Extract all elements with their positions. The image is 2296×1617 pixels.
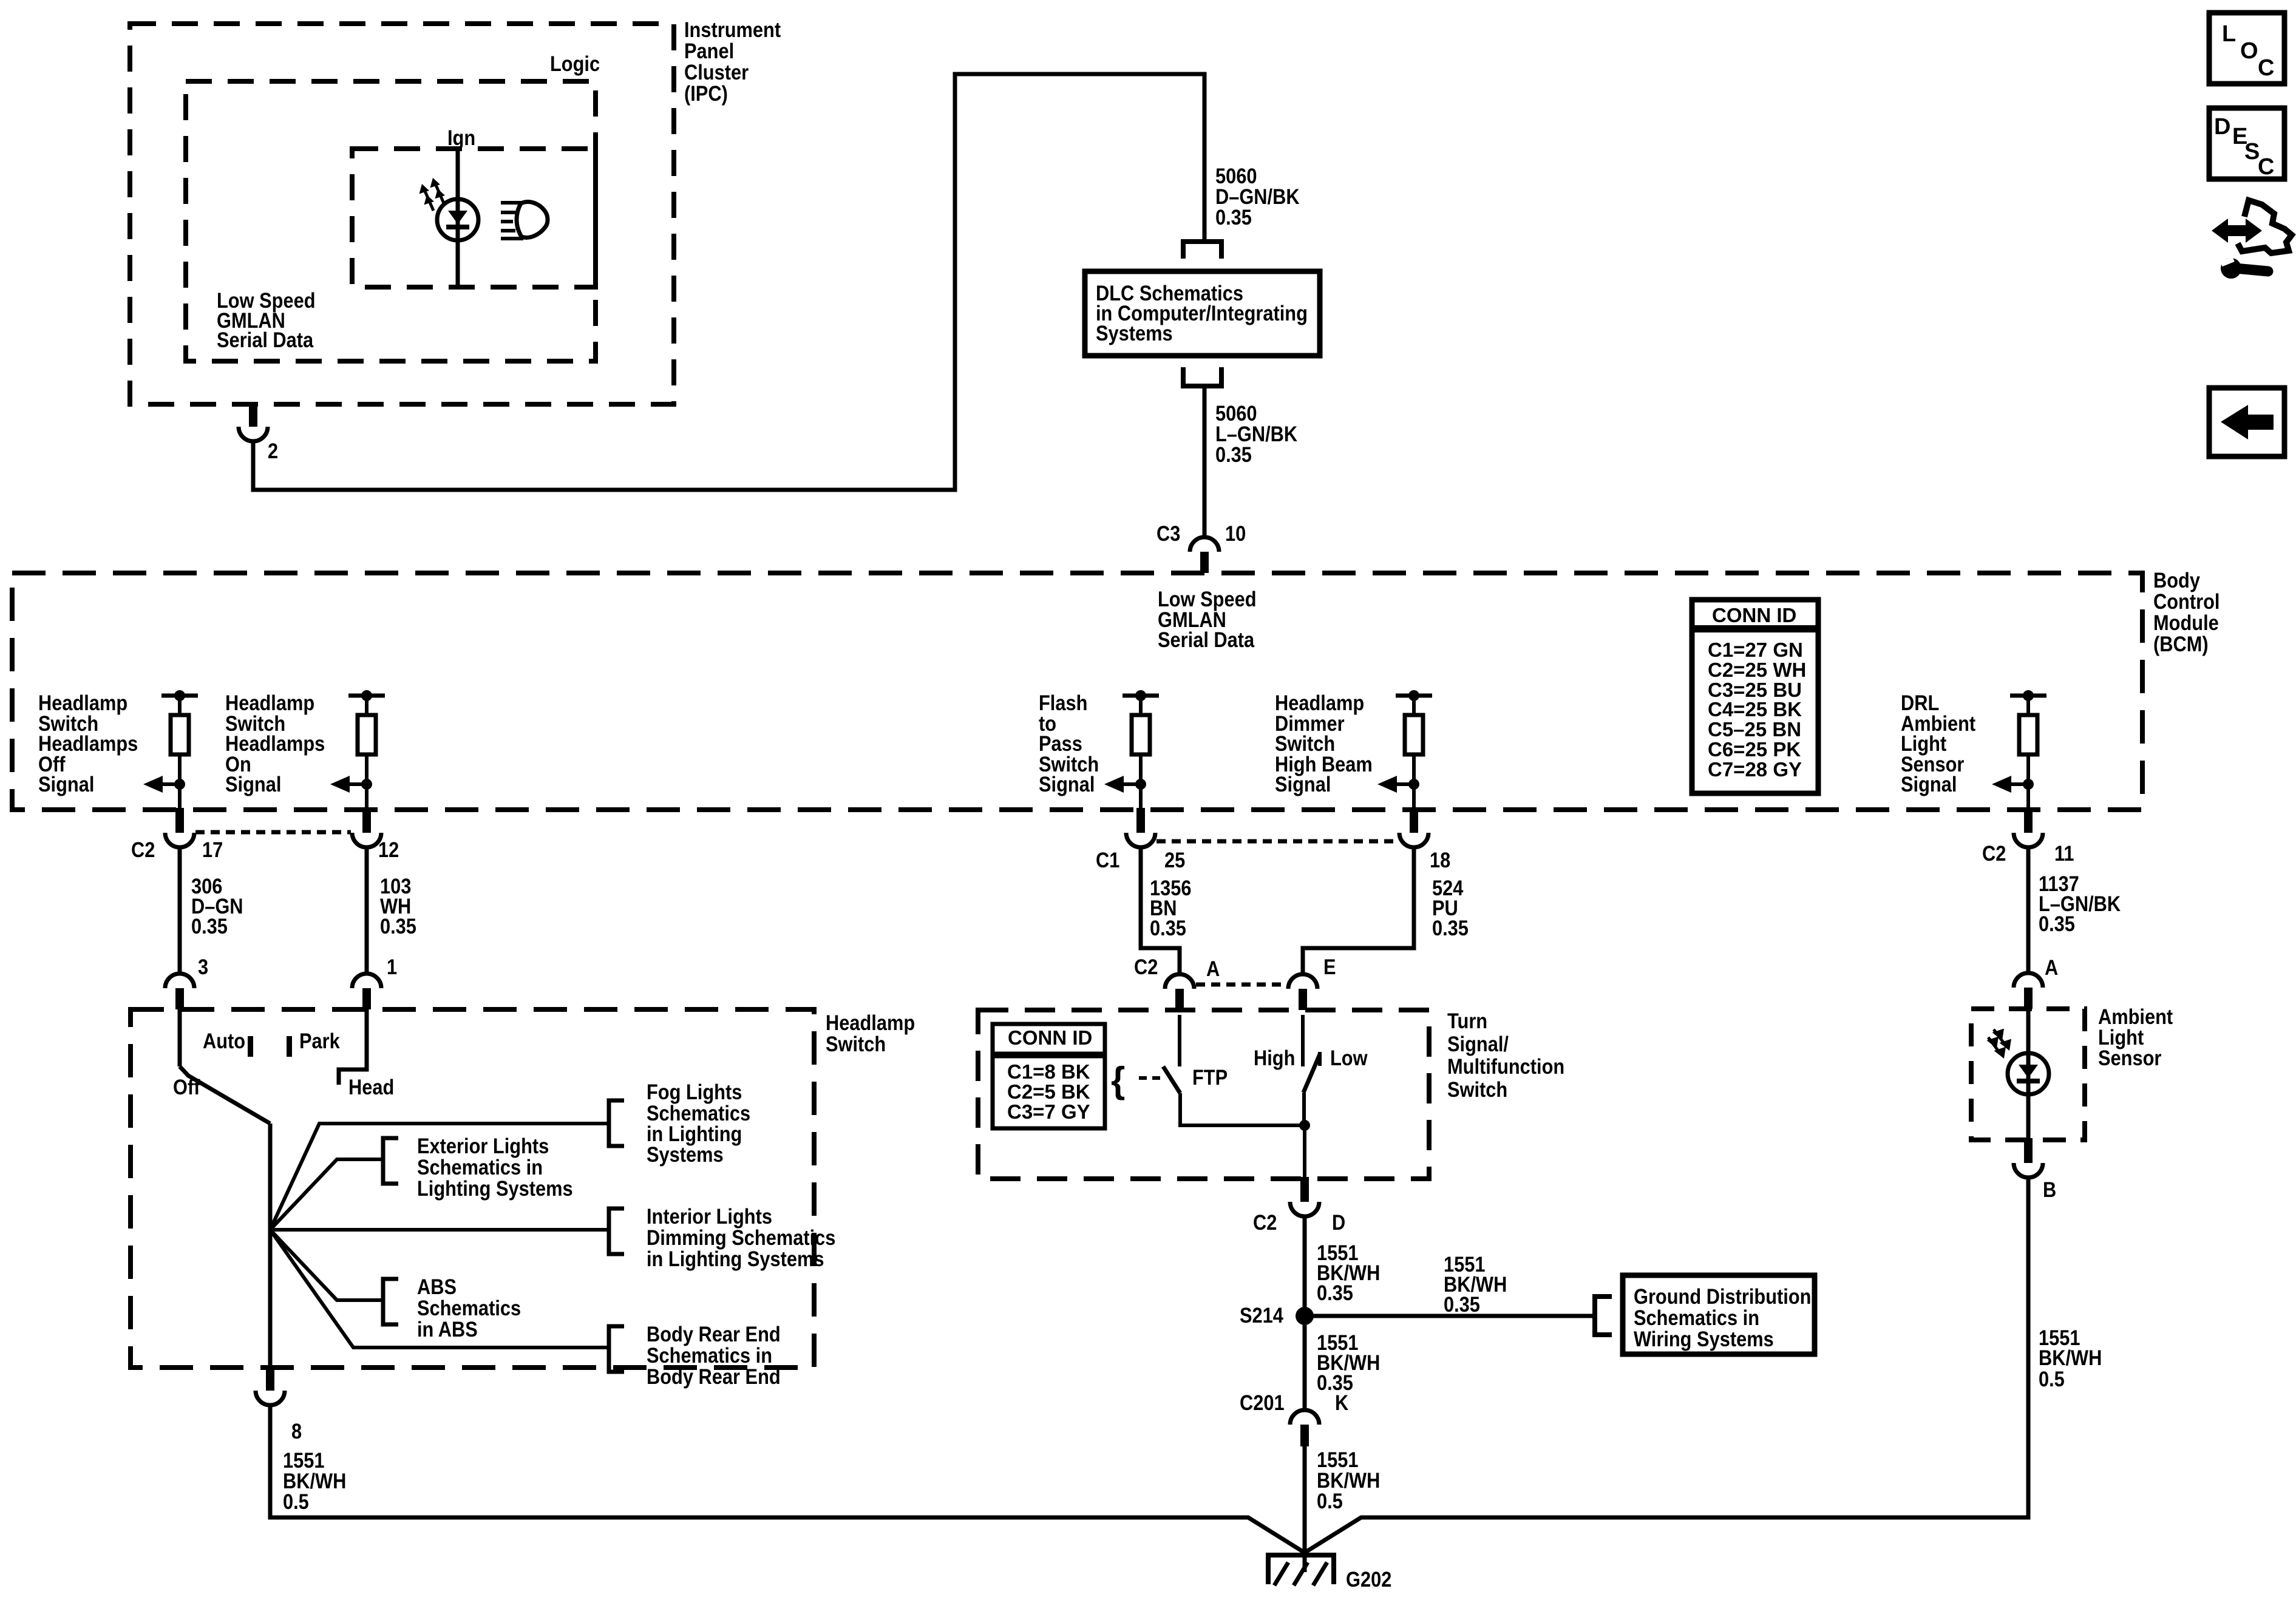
svg-text:25: 25 [1164,848,1185,872]
link line A-E connectors [1196,983,1288,987]
fan wire to interior lights [270,1228,609,1232]
resistor: DRL ambient light sensor signal [1992,690,2046,810]
fan wire to body rear end [270,1230,609,1347]
svg-text:(IPC): (IPC) [684,81,728,105]
label headlamp switch headlamps off signal [38,691,138,796]
Park contact tick [287,1036,292,1057]
svg-text:Panel: Panel [684,39,734,63]
svg-text:8: 8 [291,1419,302,1443]
svg-text:E: E [1323,955,1336,978]
wire label 1551 BK/WH 0.35 (below S214) [1317,1331,1380,1394]
svg-text:A: A [2045,955,2058,979]
wire 306 D-GN [178,846,182,974]
svg-text:Schematics in: Schematics in [417,1155,543,1179]
wire D to S214 [1303,1216,1307,1316]
svg-text:C2: C2 [1134,955,1158,978]
svg-text:C2: C2 [1982,841,2006,865]
off-page bracket above DLC box [1183,242,1221,259]
headlamp switch box [131,1009,814,1368]
svg-text:C: C [2258,55,2274,81]
wire label 1551 BK/WH 0.5 [1317,1448,1380,1513]
svg-text:Body Rear End: Body Rear End [647,1322,781,1346]
connector pin A into sensor [2014,973,2043,1009]
svg-text:in Lighting Systems: in Lighting Systems [647,1247,824,1270]
wire B to ground bus [1305,1176,2028,1553]
connector pin B [2014,1138,2043,1178]
bracket exterior lights [383,1138,398,1184]
wire pin3 into switch [178,1009,182,1066]
connector C2 pin D [1290,1177,1319,1216]
svg-text:0.35: 0.35 [1150,916,1186,940]
bracket interior lights [609,1209,624,1254]
Head contact stub [339,1009,367,1085]
svg-text:C201: C201 [1240,1391,1285,1414]
connector IPC pin 2 [239,402,268,441]
svg-text:in ABS: in ABS [417,1317,478,1341]
junction node [1299,1120,1310,1131]
svg-text:0.35: 0.35 [1444,1292,1480,1316]
resistor: headlamps off signal [143,690,198,810]
Ground Distribution box [1623,1275,1815,1354]
off-page bracket below DLC box [1183,367,1221,386]
IPC box [130,24,674,404]
connector pin 18 [1399,808,1428,847]
fan wire to ABS [270,1230,381,1300]
svg-text:Schematics in: Schematics in [1634,1306,1759,1329]
FTP switch blade [1163,1066,1180,1093]
svg-text:Wiring Systems: Wiring Systems [1634,1327,1774,1351]
wire 103 WH [365,846,369,974]
svg-text:Logic: Logic [550,52,600,75]
svg-text:L: L [2222,21,2236,47]
connector pin E into switch [1288,974,1317,1010]
dimmer switch blade [1303,1054,1320,1093]
headlamp lamp outline [517,202,548,238]
svg-text:FTP: FTP [1192,1065,1228,1089]
splice S214 [1296,1307,1314,1325]
wire 524 PU [1303,846,1414,974]
svg-text:(BCM): (BCM) [2153,632,2209,656]
svg-text:Exterior Lights: Exterior Lights [417,1134,549,1158]
bracket body rear end [609,1326,624,1372]
svg-text:C5–25 BN: C5–25 BN [1708,718,1801,741]
svg-text:Head: Head [348,1075,394,1099]
svg-text:ABS: ABS [417,1275,457,1298]
svg-text:Signal: Signal [38,772,94,796]
DESC icon box [2209,108,2284,180]
label headlamp switch headlamps on signal [225,691,325,796]
svg-text:Sensor: Sensor [2098,1046,2162,1070]
svg-text:Ign: Ign [447,126,475,149]
svg-text:C4=25 BK: C4=25 BK [1708,698,1802,720]
svg-text:Dimming Schematics: Dimming Schematics [647,1225,835,1249]
svg-text:Signal/: Signal/ [1447,1032,1509,1056]
wire A into FTP switch [1178,1015,1181,1066]
svg-text:Signal: Signal [225,772,281,796]
DLC Schematics box [1085,271,1320,356]
resistor: high beam signal [1377,690,1432,810]
svg-text:0.35: 0.35 [1432,916,1469,940]
svg-text:Switch: Switch [1447,1077,1507,1101]
resistor: flash to pass [1104,690,1159,810]
ambient light sensor label [2098,1005,2173,1070]
wire label 1551 BK/WH 0.35 (branch) [1444,1252,1507,1316]
svg-text:S214: S214 [1240,1303,1284,1327]
svg-text:Control: Control [2153,589,2220,613]
connector C201 pin K [1290,1410,1319,1446]
headlamp switch label [826,1011,915,1056]
wire DLC to BCM C3 [1203,386,1207,538]
svg-text:C3: C3 [1156,521,1180,545]
svg-text:Switch: Switch [826,1032,886,1056]
wire 1137 L-GN/BK [2026,846,2031,974]
wire 1551 BK/WH 0.5 (left) [270,1403,1305,1553]
label headlamp dimmer switch high beam signal [1275,691,1373,796]
svg-text:Multifunction: Multifunction [1447,1054,1564,1078]
svg-text:18: 18 [1430,848,1450,872]
bracket ABS [383,1279,398,1324]
svg-text:{: { [1111,1060,1125,1100]
svg-text:0.35: 0.35 [191,914,228,938]
wire label 5060 D-GN/BK 0.35 [1215,164,1300,229]
svg-text:Fog Lights: Fog Lights [647,1080,742,1103]
wire from FTP blade to junction [1180,1093,1305,1125]
svg-text:3: 3 [198,955,208,978]
connector C2 pin 17 [165,808,194,847]
svg-text:D: D [1332,1210,1345,1234]
svg-text:0.35: 0.35 [2039,912,2075,935]
svg-text:C1: C1 [1096,848,1119,872]
connector C2 pin A into switch [1165,974,1194,1010]
Low Speed GMLAN Serial Data label (IPC) [217,288,316,351]
wire S214 to ground distribution [1305,1314,1595,1318]
sensor wire through photodiode [2026,1009,2031,1140]
svg-text:10: 10 [1225,521,1246,545]
ambient light sensor box [1971,1009,2085,1140]
link line C2 connectors [195,830,351,835]
svg-text:Instrument: Instrument [684,18,781,41]
svg-text:0.5: 0.5 [2039,1367,2065,1391]
Auto contact tick [248,1036,253,1057]
connector C2 pin 12 [352,808,381,847]
svg-text:CONN ID: CONN ID [1712,604,1796,626]
svg-text:Lighting Systems: Lighting Systems [417,1176,573,1200]
svg-text:Systems: Systems [1096,321,1173,345]
FTP mechanical link dashes [1139,1076,1163,1080]
label flash to pass switch signal [1039,691,1099,796]
svg-text:C1=8 BK: C1=8 BK [1007,1060,1090,1083]
BCM label [2153,568,2220,656]
svg-text:Schematics: Schematics [417,1296,521,1320]
svg-text:C2: C2 [1253,1210,1277,1234]
svg-text:BK/WH: BK/WH [2039,1346,2102,1369]
Low contact stub [1318,1052,1322,1066]
headlamp beam icon lines [501,203,523,239]
svg-text:Serial Data: Serial Data [1158,628,1255,651]
wire junction to box edge [1303,1125,1306,1179]
svg-text:Signal: Signal [1275,772,1331,796]
svg-text:High: High [1254,1046,1295,1070]
svg-text:G202: G202 [1346,1567,1391,1591]
resistor: headlamps on signal [330,690,385,810]
fan wire to exterior lights [270,1159,381,1230]
svg-text:Signal: Signal [1039,772,1095,796]
wire label 1551 BK/WH 0.5 (right) [2039,1326,2102,1391]
wire C201 to ground [1303,1446,1307,1572]
LED light arrows (emitting) [419,178,445,211]
svg-text:C2=5 BK: C2=5 BK [1007,1080,1090,1103]
svg-text:Headlamp: Headlamp [826,1011,915,1034]
light arrows (absorbing) [1987,1029,2012,1059]
svg-text:0.35: 0.35 [1215,205,1252,229]
svg-text:Body: Body [2153,568,2201,592]
svg-text:12: 12 [378,838,399,861]
IPC label [684,18,781,105]
svg-text:Serial Data: Serial Data [217,328,314,351]
svg-text:1: 1 [387,955,397,978]
svg-text:Auto: Auto [203,1029,245,1053]
Logic box [186,81,596,361]
svg-text:0.5: 0.5 [283,1490,309,1513]
svg-text:0.5: 0.5 [1317,1489,1343,1513]
fan wire to fog lights [270,1124,609,1230]
svg-text:Interior Lights: Interior Lights [647,1204,772,1228]
indicator LED in IPC [437,199,478,240]
wire 1356 BN [1141,846,1180,974]
LOC icon box [2209,13,2284,84]
svg-text:O: O [2240,38,2258,64]
wire E into dimmer switch (High contact) [1301,1015,1305,1066]
svg-text:Schematics in: Schematics in [647,1343,772,1367]
svg-text:K: K [1335,1391,1348,1414]
svg-text:C2=25 WH: C2=25 WH [1708,659,1806,681]
svg-text:0.35: 0.35 [1215,442,1252,466]
wire from IPC pin2 to DLC (serial data) [253,74,1204,490]
connector into headlamp switch pin 1 [352,974,381,1009]
BCM box [12,573,2142,810]
off-page bracket ground distribution [1595,1297,1612,1335]
svg-text:11: 11 [2054,841,2074,865]
wire Ign feed through LED [456,150,460,286]
svg-text:Turn: Turn [1447,1009,1487,1032]
svg-text:Park: Park [299,1029,340,1053]
wire label 1551 BK/WH 0.35 (above S214) [1317,1241,1380,1304]
CONN ID table (turn signal) [993,1024,1105,1128]
svg-text:Body Rear End: Body Rear End [647,1364,781,1388]
connector C2 pin 11 [2014,808,2043,847]
turn signal box [978,1010,1429,1179]
svg-text:B: B [2043,1178,2056,1201]
svg-text:0.35: 0.35 [380,914,416,938]
svg-text:C: C [2258,154,2274,180]
Ign box [352,149,596,287]
svg-text:A: A [1206,957,1220,980]
connector C1 pin 25 [1126,808,1155,847]
connector pin 8 [256,1366,285,1405]
svg-text:Ground Distribution: Ground Distribution [1634,1284,1811,1308]
wire S214 to C201 [1303,1316,1307,1410]
bracket fog lights [609,1100,624,1146]
svg-text:Cluster: Cluster [684,60,749,84]
wire label 5060 L-GN/BK 0.35 [1215,401,1297,466]
svg-text:17: 17 [202,838,223,861]
wire blade to junction [1302,1093,1306,1125]
wiper common wire [268,1124,273,1368]
svg-text:0.35: 0.35 [1317,1281,1353,1304]
svg-text:CONN ID: CONN ID [1008,1026,1092,1049]
CONN ID table (BCM) [1692,600,1818,793]
link line C1 connectors [1156,839,1398,844]
turn signal label [1447,1009,1564,1101]
back arrow icon box [2209,388,2284,456]
svg-text:C3=7 GY: C3=7 GY [1007,1100,1090,1123]
connector C3 pin 10 into BCM [1190,537,1219,573]
service info icon (car + wrench) [2212,200,2292,279]
switch wiper blade (Off position) [180,1066,270,1124]
svg-text:D: D [2214,114,2230,140]
ground symbol G202 [1268,1553,1334,1585]
label DRL ambient light sensor signal [1901,691,1975,796]
svg-text:2: 2 [268,439,278,463]
connector into headlamp switch pin 3 [165,974,194,1009]
svg-text:C2: C2 [131,838,155,861]
svg-text:C1=27 GN: C1=27 GN [1708,639,1803,661]
svg-text:Signal: Signal [1901,772,1957,796]
Low Speed GMLAN Serial Data label (BCM) [1158,587,1257,651]
svg-text:Module: Module [2153,611,2219,634]
svg-text:C6=25 PK: C6=25 PK [1708,738,1801,761]
svg-text:Low: Low [1330,1046,1368,1070]
svg-text:Systems: Systems [647,1142,724,1166]
photodiode [2008,1053,2049,1094]
svg-text:C7=28 GY: C7=28 GY [1708,758,1802,781]
